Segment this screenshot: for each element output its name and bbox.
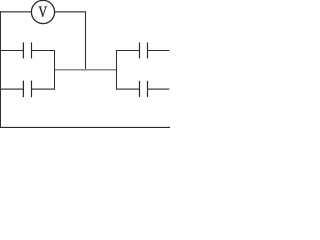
capacitor C1 (top left): [0, 42, 55, 58]
capacitor C2 (bottom left): [0, 81, 55, 98]
svg-text:V: V: [38, 4, 47, 21]
wire: top wire from left rail to voltmeter and on to the corner: [0, 11, 86, 13]
voltmeter V1: [31, 0, 54, 23]
wire: vertical drop from top-right corner to middle node: [85, 11, 87, 70]
wire: middle wire between left and right capacitor banks: [54, 69, 117, 71]
wire: bottom rail: [0, 126, 170, 128]
wire: left bank junction vertical: [54, 50, 56, 90]
wire: left rail: [0, 11, 1, 128]
capacitor C3 (top right): [116, 42, 169, 58]
wire: right bank junction vertical: [116, 50, 118, 90]
capacitor C4 (bottom right): [116, 81, 169, 97]
